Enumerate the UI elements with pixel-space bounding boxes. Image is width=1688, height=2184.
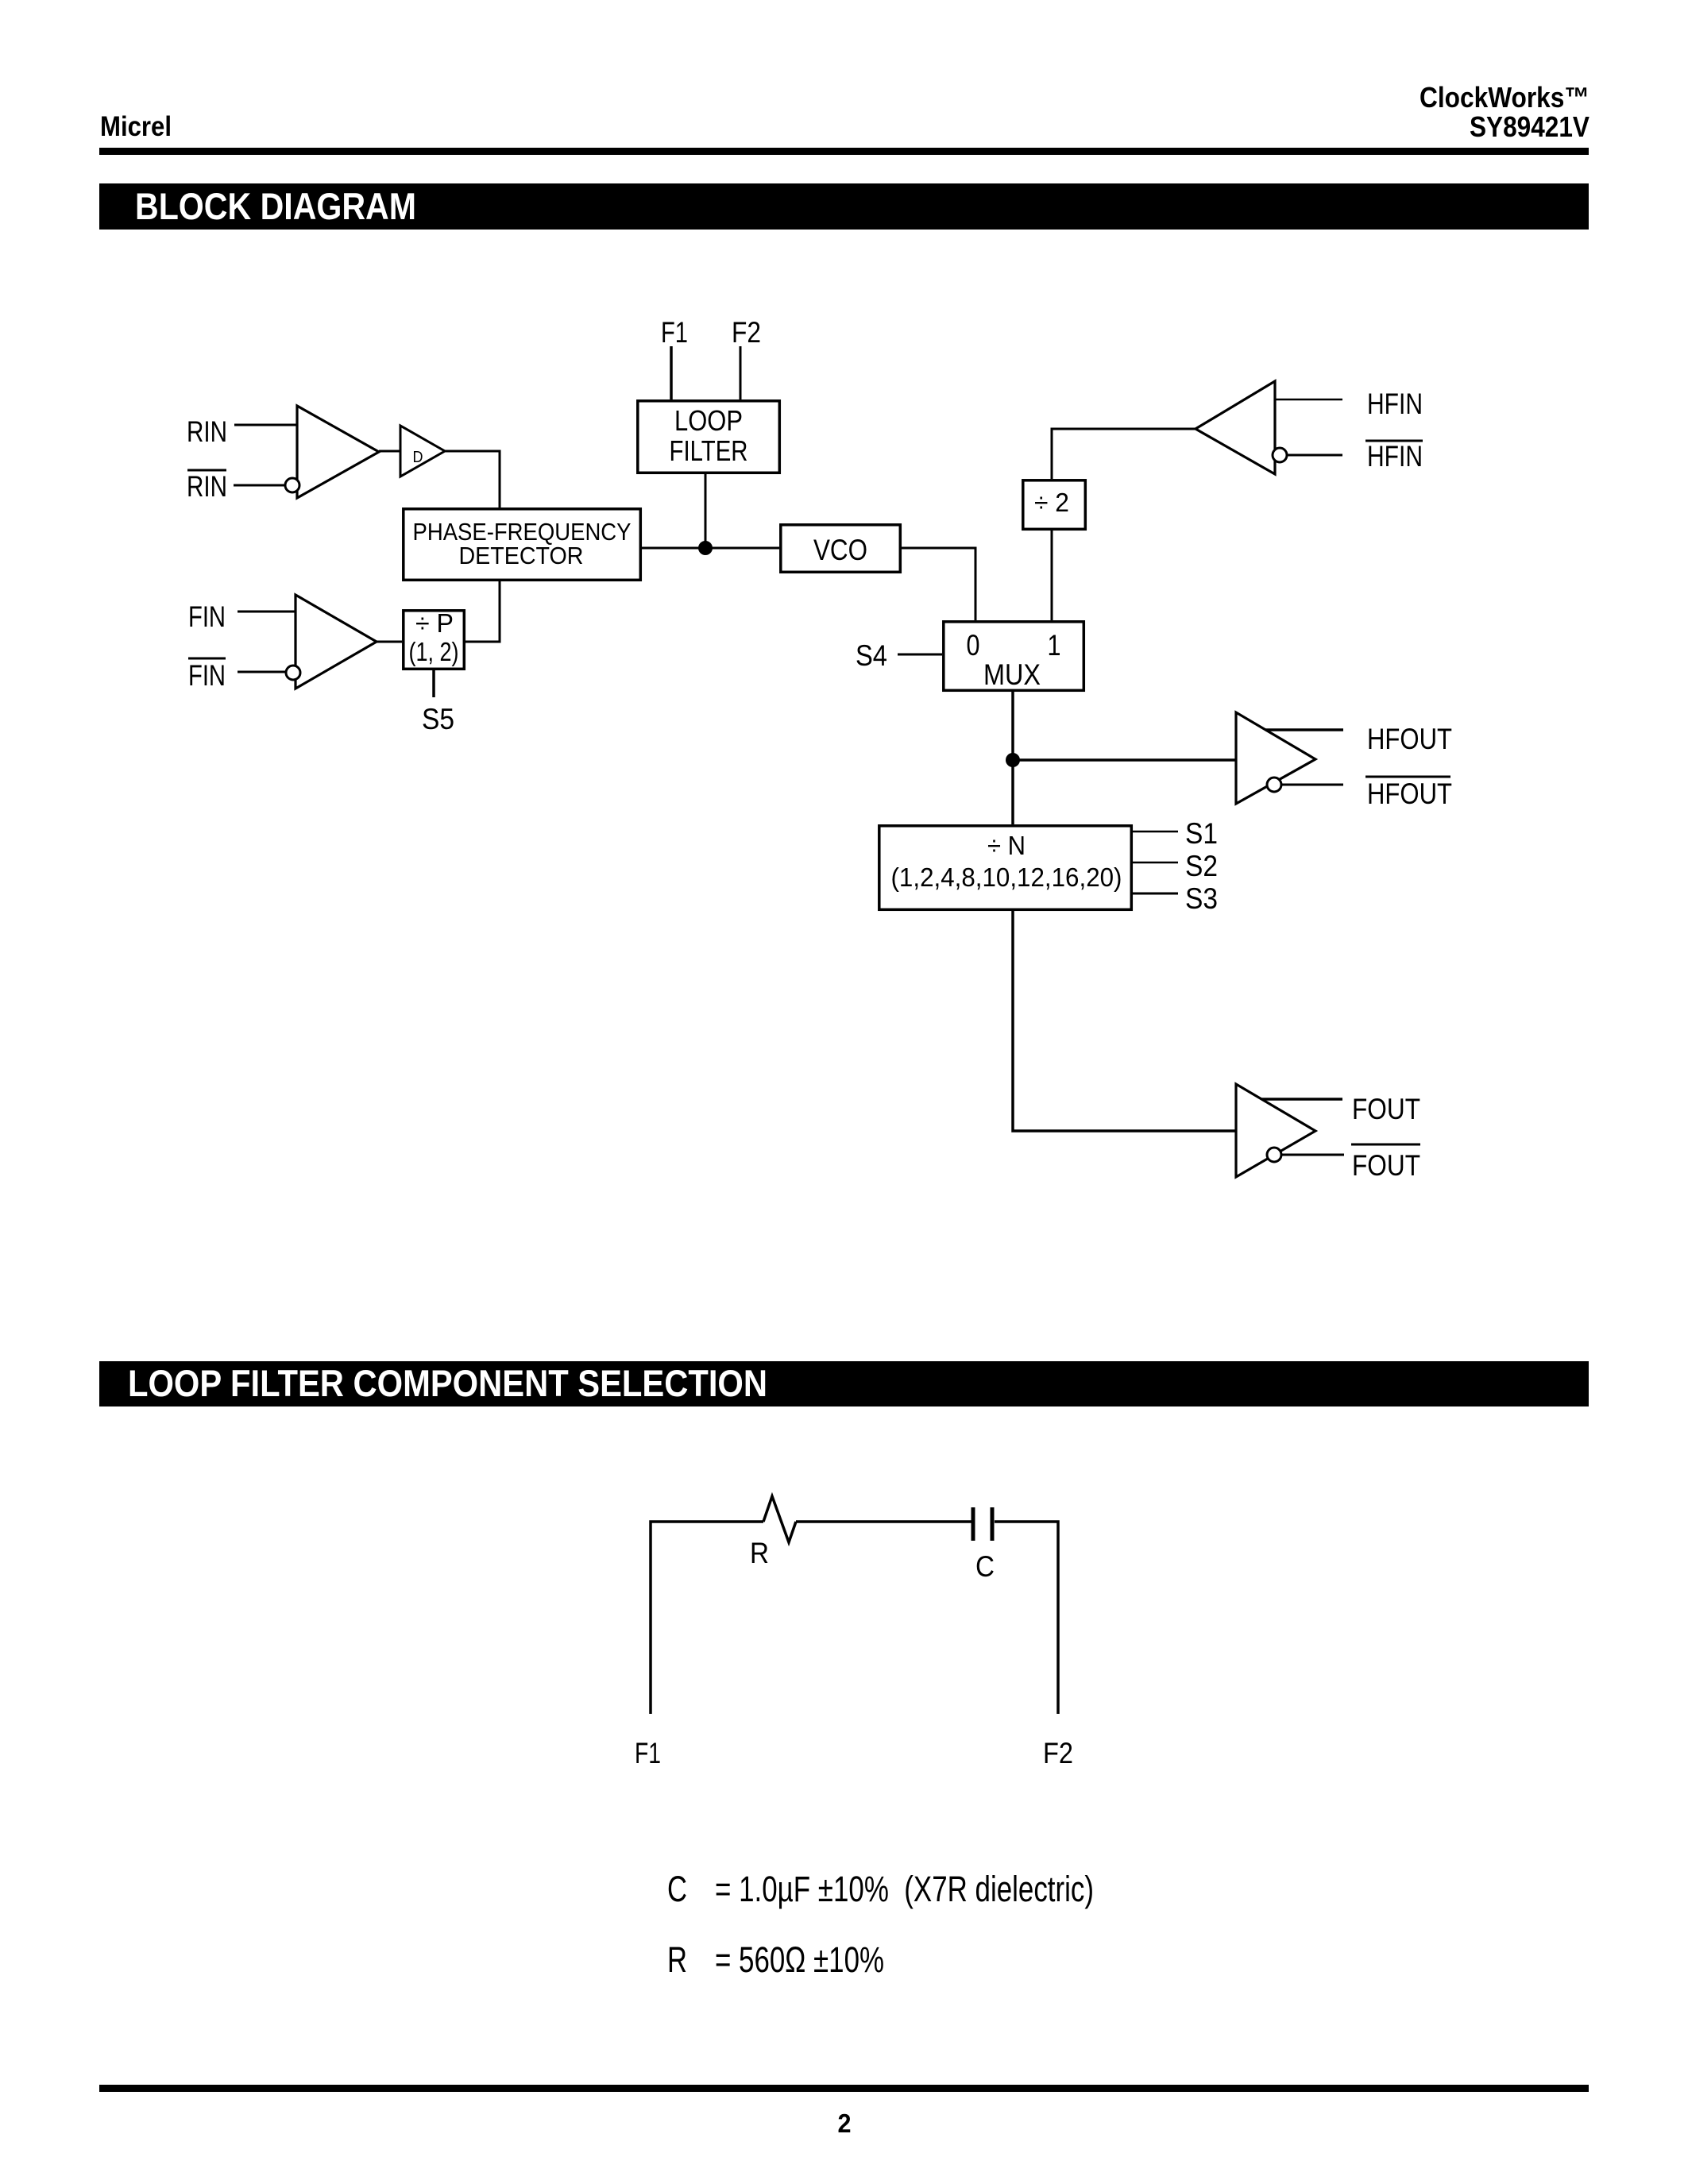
header rule bbox=[99, 148, 1589, 155]
divider 2 block bbox=[1023, 480, 1086, 530]
svg-text:Micrel: Micrel bbox=[100, 111, 172, 142]
wire FOUT-bar output bbox=[1281, 1154, 1344, 1156]
section bar: LOOP FILTER COMPONENT SELECTION bbox=[99, 1361, 1589, 1406]
wire FIN-bar input bbox=[238, 671, 286, 673]
label RIN-bar bbox=[187, 470, 227, 503]
svg-text:F2: F2 bbox=[1043, 1737, 1073, 1769]
svg-text:2: 2 bbox=[838, 2109, 852, 2138]
wire junction to HFOUT buffer bbox=[1013, 758, 1236, 762]
wire MUX output to divider N (with junction) bbox=[1011, 692, 1014, 824]
svg-text:VCO: VCO bbox=[813, 534, 867, 566]
wire D buffer to phase detector bbox=[445, 451, 500, 507]
output buffer FOUT (triangle) bbox=[1236, 1084, 1315, 1177]
wire HFOUT output bbox=[1265, 728, 1343, 731]
wire FIN input bbox=[238, 611, 295, 613]
value note: resistor R bbox=[667, 1939, 884, 1980]
label HFOUT-bar bbox=[1365, 777, 1452, 810]
wire HFIN input bbox=[1275, 399, 1342, 401]
wire HFIN-bar input bbox=[1287, 454, 1342, 457]
svg-text:F1: F1 bbox=[661, 316, 688, 349]
inverting output bubble (HFOUT-bar) bbox=[1267, 778, 1281, 792]
node: HF output junction (dot) bbox=[1006, 753, 1020, 767]
svg-text:C: C bbox=[667, 1869, 687, 1909]
footer rule bbox=[99, 2085, 1589, 2092]
wire F2 lead (right side of RC network) bbox=[995, 1522, 1058, 1714]
svg-text:R: R bbox=[667, 1939, 687, 1980]
svg-text:C: C bbox=[975, 1550, 995, 1583]
wire S2 bbox=[1133, 862, 1178, 864]
value note: capacitor C bbox=[667, 1869, 1094, 1909]
inverting input bubble (FIN-bar) bbox=[286, 666, 300, 680]
wire F2 stub bbox=[740, 346, 742, 399]
buffer D bbox=[400, 426, 445, 477]
wire divider N to FOUT buffer bbox=[1013, 911, 1236, 1131]
svg-text:= 560Ω ±10%: = 560Ω ±10% bbox=[715, 1939, 884, 1980]
svg-text:÷ 2: ÷ 2 bbox=[1034, 488, 1069, 517]
svg-text:HFIN: HFIN bbox=[1367, 388, 1423, 420]
wire F1 stub bbox=[670, 346, 673, 399]
loop filter block bbox=[638, 401, 780, 473]
svg-text:S5: S5 bbox=[422, 703, 454, 735]
svg-text:FILTER: FILTER bbox=[670, 434, 748, 467]
wire R to C bbox=[796, 1520, 971, 1523]
svg-text:(1, 2): (1, 2) bbox=[409, 637, 459, 666]
wire S4 input bbox=[898, 654, 942, 656]
inverting output bubble (FOUT-bar) bbox=[1267, 1148, 1281, 1162]
wire divider 2 to MUX input 1 bbox=[1051, 531, 1053, 620]
wire HFIN buffer to divider 2 bbox=[1052, 429, 1196, 479]
input buffer HFIN (left-pointing triangle) bbox=[1196, 381, 1275, 474]
svg-text:LOOP: LOOP bbox=[674, 404, 743, 437]
resistor R (zigzag) bbox=[763, 1496, 796, 1542]
svg-text:÷ N: ÷ N bbox=[987, 831, 1026, 860]
section bar: BLOCK DIAGRAM bbox=[99, 183, 1589, 230]
svg-text:SY89421V: SY89421V bbox=[1470, 110, 1590, 143]
svg-text:D: D bbox=[413, 449, 423, 466]
svg-text:HFOUT: HFOUT bbox=[1367, 778, 1452, 810]
svg-text:RIN: RIN bbox=[187, 470, 227, 503]
wire divider P to phase detector bbox=[465, 581, 500, 642]
input buffer FIN (triangle) bbox=[295, 595, 377, 689]
svg-text:HFOUT: HFOUT bbox=[1367, 723, 1452, 755]
wire VCO to MUX input 0 bbox=[902, 548, 975, 620]
svg-text:FOUT: FOUT bbox=[1352, 1093, 1420, 1125]
svg-text:0: 0 bbox=[967, 629, 980, 662]
svg-text:DETECTOR: DETECTOR bbox=[459, 542, 584, 569]
node: control line junction (dot) bbox=[698, 541, 713, 555]
label FIN-bar bbox=[188, 658, 226, 692]
divider P block bbox=[404, 608, 465, 669]
svg-text:1: 1 bbox=[1048, 629, 1061, 662]
inverting input bubble (RIN-bar) bbox=[285, 478, 299, 492]
svg-text:S4: S4 bbox=[856, 639, 887, 672]
svg-text:S2: S2 bbox=[1185, 850, 1218, 882]
svg-text:R: R bbox=[750, 1537, 769, 1569]
wire FIN buffer to divider P bbox=[377, 641, 402, 643]
phase-frequency detector block bbox=[404, 509, 641, 581]
wire RIN input bbox=[234, 424, 297, 426]
wire RIN-bar input bbox=[234, 484, 285, 487]
wire FOUT output bbox=[1261, 1098, 1342, 1101]
svg-text:F1: F1 bbox=[635, 1737, 661, 1769]
svg-text:RIN: RIN bbox=[187, 415, 227, 448]
label HFIN-bar bbox=[1365, 440, 1423, 473]
svg-text:S1: S1 bbox=[1185, 817, 1218, 850]
VCO block bbox=[781, 525, 901, 573]
output buffer HFOUT (triangle) bbox=[1236, 712, 1315, 804]
svg-text:F2: F2 bbox=[732, 316, 761, 349]
wire F1 lead (left side of RC network) bbox=[651, 1522, 763, 1714]
svg-text:ClockWorks™: ClockWorks™ bbox=[1420, 81, 1590, 114]
svg-text:FOUT: FOUT bbox=[1352, 1149, 1420, 1182]
label FOUT-bar bbox=[1351, 1144, 1420, 1182]
MUX block bbox=[944, 622, 1084, 691]
svg-text:BLOCK DIAGRAM: BLOCK DIAGRAM bbox=[135, 185, 416, 227]
wire HFOUT-bar output bbox=[1281, 784, 1343, 786]
divider N block bbox=[879, 826, 1132, 910]
wire RIN buffer to D buffer bbox=[379, 450, 400, 453]
svg-text:HFIN: HFIN bbox=[1367, 440, 1423, 473]
svg-text:LOOP FILTER COMPONENT SELECTIO: LOOP FILTER COMPONENT SELECTION bbox=[128, 1362, 767, 1404]
svg-text:S3: S3 bbox=[1185, 882, 1218, 915]
svg-text:MUX: MUX bbox=[983, 658, 1041, 691]
svg-text:(1,2,4,8,10,12,16,20): (1,2,4,8,10,12,16,20) bbox=[891, 862, 1122, 892]
svg-text:= 1.0µF ±10% (X7R dielectric): = 1.0µF ±10% (X7R dielectric) bbox=[715, 1869, 1094, 1909]
svg-text:FIN: FIN bbox=[188, 659, 226, 692]
capacitor C (plates) bbox=[973, 1507, 992, 1541]
wire phase detector to VCO bbox=[642, 547, 779, 550]
wire: loop filter to VCO control line bbox=[705, 474, 707, 548]
inverting input bubble (HFIN-bar) bbox=[1273, 448, 1287, 462]
wire S3 bbox=[1133, 893, 1178, 895]
wire S5 stub bbox=[432, 670, 435, 697]
input buffer RIN (triangle) bbox=[297, 406, 379, 498]
wire S1 bbox=[1133, 831, 1178, 833]
svg-text:÷ P: ÷ P bbox=[415, 608, 454, 638]
svg-text:FIN: FIN bbox=[188, 600, 226, 633]
